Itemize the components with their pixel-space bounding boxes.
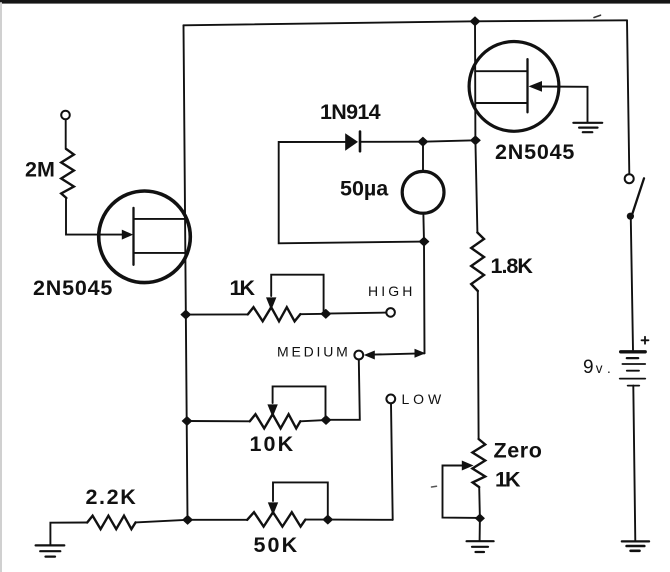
page left border line: [0, 3, 2, 572]
wire Q2 gate to ground: [539, 87, 588, 123]
page top border bar: [0, 0, 670, 4]
switch S1 terminal: [625, 174, 634, 183]
svg-text:MEDIUM: MEDIUM: [277, 344, 351, 360]
transistor Q2 source lead: [475, 102, 527, 104]
svg-text:2M: 2M: [25, 158, 55, 182]
meter M1 50ua: [402, 171, 444, 213]
svg-text:2N5045: 2N5045: [495, 140, 575, 164]
wire ground stub 2.2K: [50, 523, 87, 545]
node 1K junction: [181, 310, 191, 319]
battery B1 plates: [621, 350, 646, 353]
svg-text:10K: 10K: [250, 432, 296, 456]
wire antenna to 2M: [65, 120, 67, 150]
wire switch to battery: [631, 219, 633, 350]
transistor Q1 source lead: [134, 252, 187, 254]
wire 50K wiper loop: [273, 482, 328, 519]
transistor Q2 2N5045 circle: [469, 42, 559, 132]
wire to 10K: [187, 420, 250, 422]
potentiometer 50K: [247, 512, 305, 526]
wire Q2 drain vertical: [474, 21, 476, 140]
wire MEDIUM down: [327, 359, 360, 419]
wire to 50K: [188, 519, 248, 521]
terminal MEDIUM: [354, 351, 363, 360]
switch S1 pole dot: [627, 213, 634, 220]
wire diode loop left: [279, 142, 424, 243]
svg-text:50µa: 50µa: [340, 177, 389, 201]
arrow 50K wiper: [268, 502, 278, 515]
wire meter stub top: [422, 142, 424, 170]
node top junction: [470, 17, 480, 26]
transistor Q1 2N5045 circle: [99, 191, 191, 283]
node 50K right junction: [323, 515, 333, 524]
svg-text:1K: 1K: [230, 276, 256, 300]
transistor Q1 channel bar: [132, 208, 134, 265]
transistor Q2 channel bar: [526, 59, 528, 112]
node Zero bottom junction: [475, 514, 484, 522]
wire to 1K: [186, 313, 248, 315]
wire Zero to ground: [479, 518, 481, 541]
wire 10K wiper loop: [273, 386, 326, 420]
wire 10K right: [300, 420, 325, 421]
wire 1K wiper loop: [271, 275, 323, 314]
switch S1 blade: [632, 178, 645, 216]
wire meter bottom to MEDIUM corner: [423, 242, 426, 354]
transistor Q2 drain lead: [475, 70, 527, 72]
ground battery: [622, 540, 649, 542]
transistor Q1 drain lead: [134, 218, 187, 220]
svg-text:LOW: LOW: [402, 391, 446, 407]
arrow MEDIUM corner: [415, 349, 426, 358]
arrow 10K wiper: [267, 404, 277, 417]
wire top right down to switch: [627, 20, 629, 174]
svg-text:9v.: 9v.: [583, 357, 616, 378]
node 50K junction: [183, 515, 193, 524]
svg-text:1K: 1K: [495, 468, 521, 492]
node Q2 source junction: [471, 136, 481, 145]
scan speck: [594, 15, 601, 17]
wire 1.8K to Zero pot: [477, 291, 480, 439]
terminal LOW: [386, 395, 395, 404]
resistor R1 2M: [61, 149, 74, 198]
wire LOW down: [391, 403, 393, 519]
transistor Q1 gate arrow: [122, 230, 133, 240]
wire MEDIUM to corner: [373, 353, 425, 354]
terminal antenna input: [61, 111, 70, 120]
arrow 1K wiper: [266, 297, 276, 310]
node meter bottom junction: [419, 237, 429, 246]
arrow Zero wiper: [462, 461, 474, 471]
wire top rail: [184, 20, 628, 25]
ground Zero: [467, 540, 494, 542]
wire 1K right: [300, 313, 326, 315]
wire 50K right: [305, 519, 327, 521]
potentiometer 10K: [250, 414, 300, 428]
wire 2M to gate: [66, 198, 122, 235]
scan speck dash near Zero loop: [432, 485, 437, 488]
svg-text:1N914: 1N914: [320, 100, 381, 124]
wire 2.2K to main: [136, 520, 188, 523]
diode D1 cathode bar: [359, 132, 362, 152]
wire Zero bottom: [478, 487, 481, 518]
potentiometer Zero 1K: [472, 439, 485, 487]
resistor 2.2K: [87, 516, 135, 529]
wire meter top to Q2 source: [423, 140, 476, 141]
svg-text:Zero: Zero: [494, 439, 543, 463]
wire diode to meter top: [361, 141, 423, 143]
svg-text:HIGH: HIGH: [368, 283, 415, 299]
wire battery to ground: [633, 386, 635, 542]
wire left main vertical: [184, 25, 188, 520]
potentiometer 1K: [248, 307, 300, 321]
wire meter stub bottom: [422, 215, 425, 242]
svg-text:2N5045: 2N5045: [33, 276, 113, 300]
node 1K right junction: [321, 309, 331, 318]
ground left: [36, 544, 65, 546]
arrow MEDIUM left: [364, 351, 375, 360]
node 10K junction: [182, 417, 192, 426]
wire 50K to LOW riser: [328, 519, 393, 521]
diode D1 1N914 triangle: [345, 133, 358, 151]
wire Zero wiper loop: [443, 466, 480, 518]
node meter top junction: [418, 137, 428, 146]
wire Q2 to 1.8K: [475, 140, 477, 232]
wire 1K to HIGH: [326, 313, 386, 314]
svg-text:50K: 50K: [254, 533, 300, 557]
resistor 1.8K: [471, 233, 484, 292]
svg-text:1.8K: 1.8K: [491, 254, 534, 278]
terminal HIGH: [386, 308, 395, 317]
ground Q2 gate: [573, 122, 602, 124]
svg-text:2.2K: 2.2K: [86, 485, 138, 509]
transistor Q2 gate arrow: [529, 81, 543, 92]
battery B1 plus sign: [642, 337, 649, 344]
node 10K right junction: [321, 416, 331, 425]
